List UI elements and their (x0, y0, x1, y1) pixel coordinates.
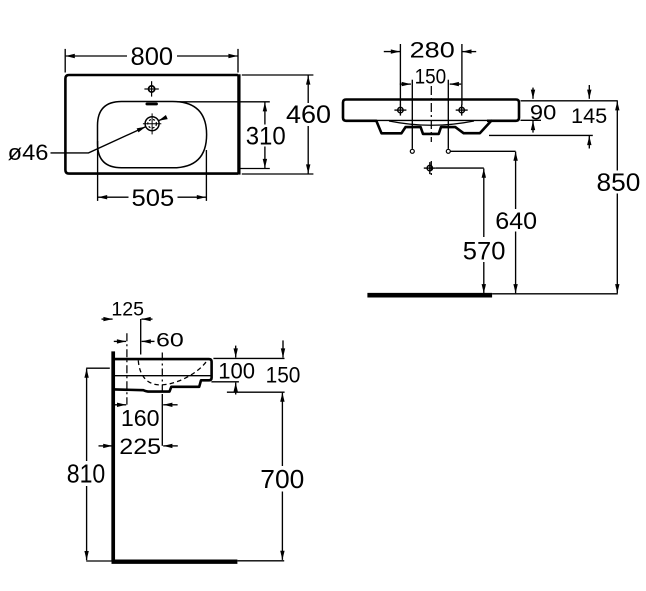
dim 700 (281, 393, 283, 560)
dim 810 extension line top (86, 367, 110, 369)
ext line slab top to right (213, 357, 284, 359)
dim 810 (86, 369, 88, 561)
dim 505 extension lines (98, 141, 207, 201)
side view: faucet axis centerline (126, 333, 128, 404)
side view: floor thin right (237, 560, 284, 562)
dim 150 front (400, 83, 461, 85)
front view: underside profile (376, 121, 491, 134)
plan view: overflow slot (146, 103, 158, 106)
svg-text:150: 150 (266, 363, 301, 388)
svg-text:310: 310 (246, 123, 286, 151)
side view: floor thin left (86, 560, 111, 562)
side view: rim back thin line (115, 375, 211, 377)
front view: slab (343, 100, 519, 121)
dim 570 (483, 169, 485, 294)
dim 310 (264, 102, 266, 168)
side view: hidden bowl dashed (138, 361, 206, 385)
front view: floor thick (367, 293, 492, 298)
ext line 100 bottom (211, 381, 239, 383)
side view: 125 reference line (140, 319, 142, 355)
dim 145 (588, 85, 590, 149)
front view: left faucet hole (394, 105, 406, 116)
side view: drain axis extension (161, 394, 163, 446)
side view: wall line (111, 351, 115, 561)
front view: wall bolt holes (410, 149, 414, 153)
front view: centerline (430, 86, 432, 176)
svg-text:ø46: ø46 (8, 140, 49, 165)
plan view: bowl (98, 102, 207, 168)
ext line 145 bottom (489, 134, 593, 136)
dim 640 (515, 152, 517, 294)
svg-text:100: 100 (218, 359, 255, 384)
plan view: faucet hole cross (144, 81, 158, 96)
svg-text:160: 160 (121, 405, 160, 431)
plan view: back edge thick line (237, 74, 240, 174)
svg-text:505: 505 (132, 185, 175, 212)
side view: drain axis centerline (161, 353, 163, 395)
dim 280 extension lines (400, 44, 462, 105)
dim 150 side (282, 340, 284, 357)
svg-text:60: 60 (156, 329, 184, 351)
ext line slab bottom right (521, 119, 542, 121)
dim 505 (98, 196, 206, 198)
svg-text:150: 150 (415, 66, 447, 89)
ext line 150 bottom (227, 391, 285, 393)
dim 850 (616, 101, 618, 293)
leader from right bolt hole to 640 (451, 150, 516, 152)
svg-text:460: 460 (286, 101, 331, 129)
front view: right faucet hole (456, 105, 468, 116)
dim 100 (235, 346, 237, 395)
side view: floor thick (112, 560, 238, 564)
svg-text:90: 90 (530, 101, 556, 125)
dim 460 extension lines (242, 75, 314, 174)
svg-text:800: 800 (131, 43, 174, 71)
dim 800 extension lines (65, 49, 238, 73)
svg-text:225: 225 (119, 434, 161, 459)
svg-text:145: 145 (571, 104, 607, 128)
dim 125 (102, 318, 153, 320)
plan view: drain hole o46 (143, 113, 161, 134)
svg-text:640: 640 (495, 208, 537, 235)
dim 225 (99, 445, 178, 447)
dim 150 extension lines (front) (412, 80, 448, 149)
dim 460 (307, 75, 309, 173)
svg-text:570: 570 (463, 238, 506, 266)
ext line slab top right (521, 100, 618, 102)
svg-text:810: 810 (67, 461, 106, 489)
dim 160 (113, 404, 178, 406)
front view: bowl rim arc (389, 121, 474, 125)
svg-text:125: 125 (111, 299, 144, 321)
front view: floor thin extension (492, 293, 618, 295)
label o46 leader (51, 117, 167, 153)
plan view: basin outline (65, 75, 238, 174)
front view: drain cross circle (424, 162, 436, 174)
dim 90 (532, 88, 534, 133)
svg-text:700: 700 (260, 464, 304, 494)
dim 60 (114, 340, 155, 342)
svg-text:850: 850 (597, 169, 641, 197)
dim 310 extension lines (177, 102, 270, 169)
side view: basin profile (115, 359, 212, 392)
dim 280 (384, 51, 476, 53)
svg-text:280: 280 (410, 37, 455, 62)
dim 800 (66, 55, 238, 57)
leader from drain circle to 570 (436, 167, 484, 169)
